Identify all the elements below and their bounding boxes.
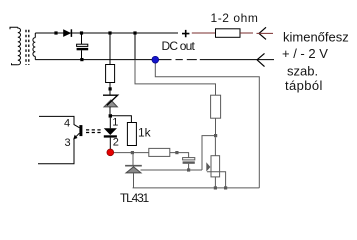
wire: zener to opto LED pin 1 — [109, 107, 111, 115]
node: wiper branch on return rail — [224, 186, 227, 189]
node: dot after R3 — [175, 151, 178, 154]
wire: bottom return rail — [133, 187, 260, 189]
wire: from top rail junction down to divider resistor R4 — [135, 60, 216, 96]
wire: maroon after arrow — [257, 32, 274, 34]
node: TL431 cathode node — [131, 151, 134, 154]
wire: from DC- node down and right to bottom return — [155, 60, 259, 188]
svg-text:2: 2 — [113, 137, 119, 149]
opto transistor collector wire — [39, 116, 79, 127]
resistor R1 (vertical) — [106, 65, 115, 83]
capacitor C1 lead bottom — [81, 50, 83, 59]
wire: bottom rail to output arrow — [200, 59, 274, 61]
svg-text:1-2 ohm: 1-2 ohm — [211, 11, 259, 25]
wire: maroon after resistor — [240, 32, 253, 34]
resistor R3 (horizontal) — [149, 148, 170, 156]
wire: TL431 ref line — [141, 169, 203, 171]
arrow on positive output wire — [259, 27, 266, 39]
wire: maroon from + to series resistor — [192, 32, 216, 34]
plus symbol at DC out — [182, 30, 189, 37]
resistor R6 1-2 ohm — [216, 29, 241, 38]
node: opto pin 1 corner — [109, 114, 112, 117]
wire: tap to wiper — [202, 136, 216, 170]
transformer T1 secondary lead bottom — [34, 56, 36, 59]
svg-text:1k: 1k — [138, 125, 152, 139]
node: C3 on ref line — [187, 168, 190, 171]
wire: top rail down across bottom rail — [134, 33, 136, 60]
wire: from top rail down to R1 — [109, 33, 111, 65]
wire: wiper through to bottom — [207, 172, 226, 188]
wire: top positive rail — [35, 32, 178, 34]
gray feedback network — [114, 60, 260, 190]
transformer T1 primary lead bottom — [12, 63, 18, 65]
capacitor C1 (electrolytic) — [77, 44, 88, 46]
opto LED cathode lead — [109, 138, 111, 150]
capacitor C3 — [183, 158, 195, 160]
node: dot between R1 and zener — [109, 87, 112, 90]
wire: bottom negative rail — [35, 59, 171, 61]
resistor R2 1k (vertical) — [127, 123, 136, 146]
opto transistor emitter wire — [38, 133, 79, 164]
transformer T1 primary winding — [18, 27, 21, 65]
transformer T1 primary lead top — [10, 27, 18, 29]
svg-text:kimenőfesz: kimenőfesz — [283, 30, 349, 45]
opto transistor base bar — [79, 125, 82, 136]
TL431 U1 anode lead — [133, 173, 135, 188]
transformer T1 secondary lead top — [34, 33, 36, 38]
node: DC- blue dot — [152, 56, 159, 63]
node: junction on top rail feeding divider — [133, 31, 136, 34]
potentiometer R5 body — [211, 156, 220, 177]
opto coupling dashes — [86, 130, 101, 133]
transformer T1 core — [26, 30, 29, 65]
node: junction on top rail at capacitor C1 — [80, 31, 83, 34]
wire: pot top lead — [214, 137, 216, 156]
wire: pin1 node to 1k resistor — [112, 116, 131, 123]
svg-text:TL431: TL431 — [120, 191, 150, 205]
node: junction on top rail feeding R1 — [108, 31, 111, 34]
svg-text:4: 4 — [64, 118, 70, 130]
zener diode Z1 body — [104, 100, 117, 107]
node: divider tap — [214, 134, 217, 137]
opto LED anode lead — [109, 118, 111, 129]
opto LED (diode down) — [104, 128, 117, 135]
wire: C3 to ref line — [188, 164, 190, 170]
node: junction on bottom rail at capacitor C1 — [80, 58, 83, 61]
capacitor C1 lead top — [81, 33, 83, 44]
node: opto pin 2 red dot — [107, 149, 114, 156]
svg-text:3: 3 — [65, 137, 71, 149]
svg-text:szab.: szab. — [287, 64, 318, 79]
resistor R4 (divider upper) — [211, 95, 221, 118]
TL431 U1 cathode bar — [125, 165, 142, 167]
potentiometer wiper arrow — [206, 162, 210, 171]
node: junction on top rail at secondary — [54, 31, 57, 34]
svg-text:tápból: tápból — [285, 78, 323, 93]
svg-text:1: 1 — [112, 117, 118, 129]
svg-text:+ / - 2 V: + / - 2 V — [282, 46, 328, 61]
TL431 U1 body — [126, 167, 141, 173]
wire: R3 to cap C3 — [170, 153, 189, 158]
transformer T1 secondary winding — [33, 38, 35, 57]
opto transistor emitter arrow — [73, 135, 77, 140]
svg-text:DC out: DC out — [162, 39, 196, 53]
node: pot bottom on return rail — [214, 186, 217, 189]
wire: R1 to zener — [109, 83, 111, 96]
TL431 U1 cathode lead — [132, 153, 134, 165]
wire: R4 to tap node — [215, 118, 217, 135]
wire: pot bottom lead — [214, 177, 216, 188]
wire: bottom rail dashed section — [176, 59, 197, 61]
arrow on negative output wire — [257, 53, 265, 66]
zener diode Z1 cathode bar — [103, 95, 118, 105]
wire: opto pin2 to TL431 cathode node — [114, 152, 149, 154]
diode D1 — [63, 29, 71, 37]
